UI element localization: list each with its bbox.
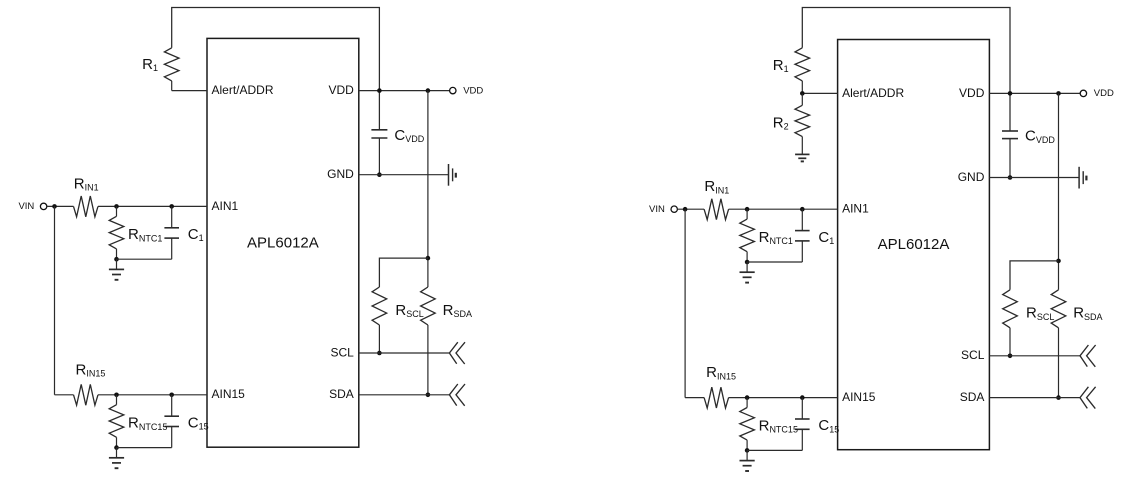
svg-text:GND: GND — [958, 170, 985, 184]
svg-text:Alert/ADDR: Alert/ADDR — [212, 83, 274, 97]
svg-text:VDD: VDD — [328, 83, 354, 97]
svg-text:VIN: VIN — [649, 204, 665, 215]
svg-text:SCL: SCL — [961, 348, 985, 362]
svg-text:APL6012A: APL6012A — [247, 234, 319, 251]
svg-text:GND: GND — [327, 167, 354, 181]
svg-text:SDA: SDA — [960, 390, 985, 404]
svg-text:APL6012A: APL6012A — [878, 236, 950, 253]
svg-text:SDA: SDA — [329, 387, 354, 401]
svg-text:SCL: SCL — [330, 345, 354, 359]
svg-text:VDD: VDD — [1094, 88, 1114, 99]
svg-text:AIN15: AIN15 — [212, 387, 246, 401]
svg-text:VDD: VDD — [463, 85, 483, 96]
svg-text:AIN15: AIN15 — [842, 390, 876, 404]
svg-text:AIN1: AIN1 — [842, 202, 869, 216]
svg-text:VIN: VIN — [18, 201, 34, 212]
svg-text:Alert/ADDR: Alert/ADDR — [842, 86, 904, 100]
svg-text:VDD: VDD — [959, 86, 985, 100]
svg-text:AIN1: AIN1 — [212, 199, 239, 213]
